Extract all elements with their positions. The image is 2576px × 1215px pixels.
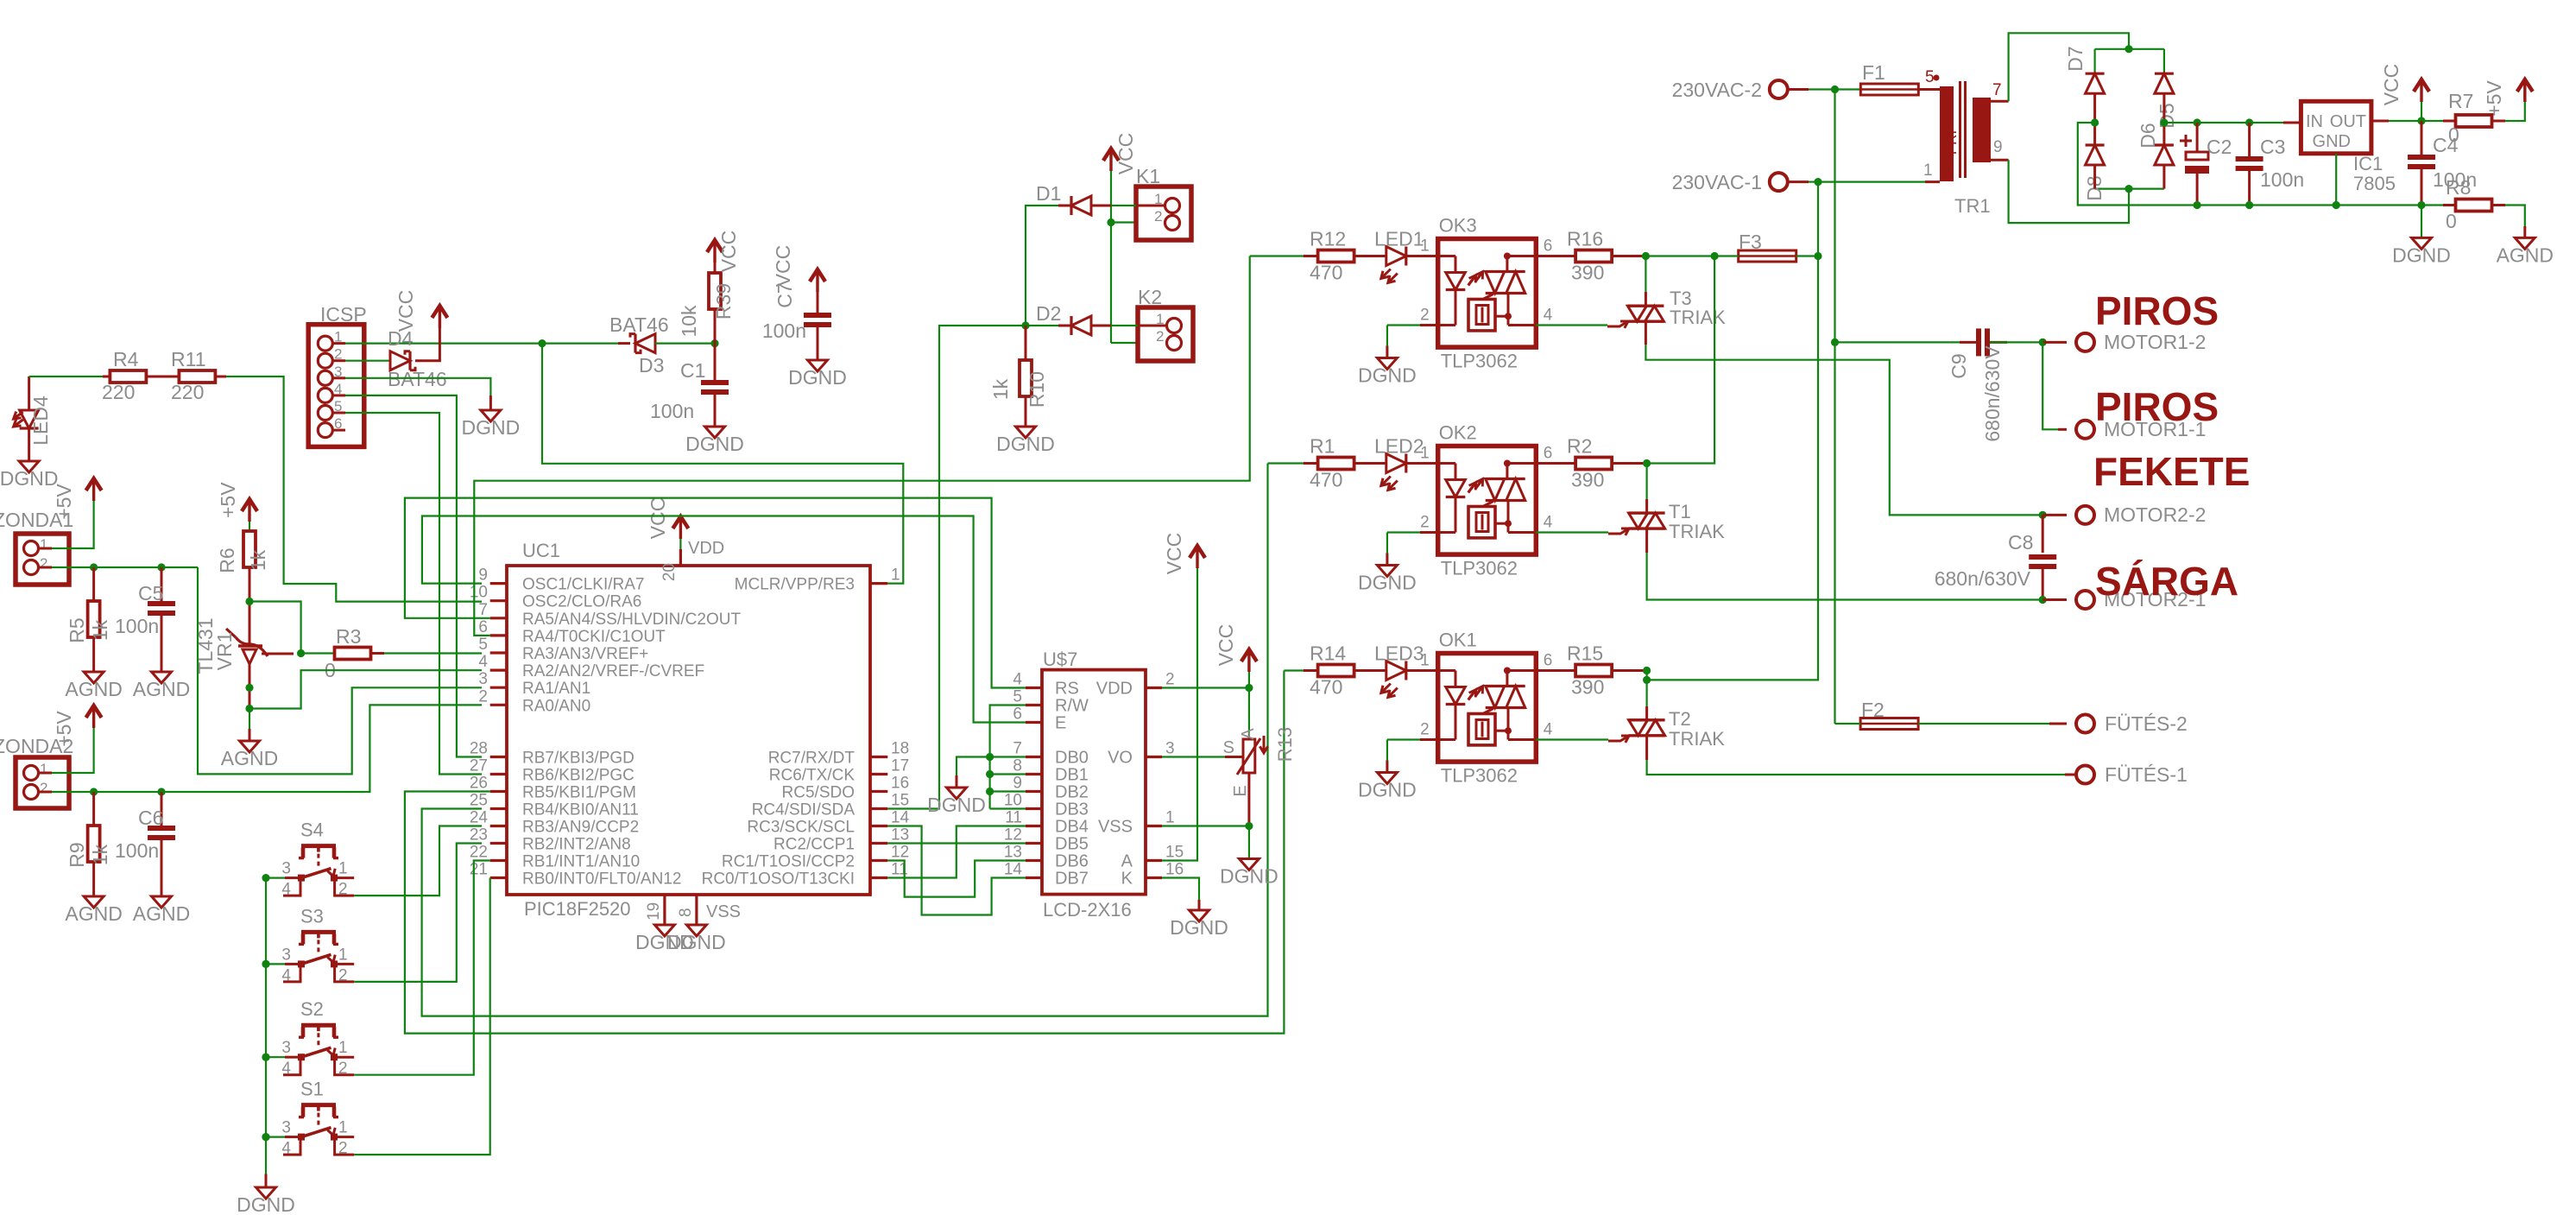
wire R11 to PIC pin10 (OSC2) — [216, 376, 226, 378]
svg-text:DGND: DGND — [0, 467, 58, 490]
junction K1 pin2 — [1107, 218, 1114, 226]
svg-text:OSC2/CLO/RA6: OSC2/CLO/RA6 — [522, 593, 641, 611]
wire ref loop to R3 — [249, 602, 301, 654]
svg-text:IC1: IC1 — [2353, 153, 2383, 174]
wire PIC pin14 (RC3) to LCD DB7 — [887, 826, 1026, 915]
LCD pin 3 VO — [1146, 756, 1162, 758]
svg-text:220: 220 — [171, 381, 204, 403]
svg-text:R14: R14 — [1310, 642, 1346, 665]
svg-text:DGND: DGND — [685, 433, 744, 455]
wire S1 pin2 to PIC pin21 (RB0) — [354, 878, 490, 1155]
LCD pin 1 VSS — [1146, 825, 1162, 827]
svg-text:RC0/T1OSO/T13CKI: RC0/T1OSO/T13CKI — [702, 870, 855, 889]
svg-text:LED4: LED4 — [29, 396, 52, 446]
ground DGND at LCD K — [1190, 910, 1209, 921]
svg-text:C9: C9 — [1948, 353, 1970, 378]
svg-text:4: 4 — [281, 1140, 291, 1158]
svg-text:RA1/AN1: RA1/AN1 — [522, 680, 590, 698]
svg-text:5: 5 — [1925, 68, 1935, 86]
svg-text:DB0: DB0 — [1055, 749, 1089, 768]
junction C4 bottom — [2417, 201, 2425, 209]
svg-text:2: 2 — [338, 881, 348, 899]
svg-text:FÜTÉS-1: FÜTÉS-1 — [2105, 763, 2188, 786]
svg-text:RB0/INT0/FLT0/AN12: RB0/INT0/FLT0/AN12 — [522, 870, 681, 889]
LCD pin 15 A — [1146, 859, 1162, 862]
pin FUTES-1 — [2076, 766, 2094, 784]
wire ZONDA2 pin1 to +5V — [39, 772, 53, 775]
svg-text:R9: R9 — [66, 842, 88, 867]
ground DGND at LCD data bus — [947, 788, 967, 799]
ground DGND at pin19 — [654, 925, 674, 936]
svg-text:R2: R2 — [1567, 435, 1592, 458]
pin 25 RB4/KBI0/AN11 — [490, 807, 507, 810]
wire A (pin15) to VCC — [1162, 568, 1197, 861]
svg-text:F3: F3 — [1739, 231, 1762, 253]
junction bridge top — [2125, 45, 2132, 53]
pin 28 RB7/KBI3/PGD — [490, 756, 507, 758]
svg-text:OK1: OK1 — [1439, 630, 1477, 651]
svg-text:RB4/KBI0/AN11: RB4/KBI0/AN11 — [522, 801, 639, 819]
svg-text:230VAC-2: 230VAC-2 — [1672, 79, 1762, 101]
svg-text:3: 3 — [281, 860, 291, 878]
svg-text:VCC: VCC — [1114, 133, 1137, 175]
svg-text:OK2: OK2 — [1439, 422, 1477, 444]
module U$7 LCD-2X16 — [1042, 670, 1146, 895]
svg-text:DGND: DGND — [2392, 244, 2451, 266]
svg-text:27: 27 — [470, 757, 488, 775]
pin 26 RB5/KBI1/PGM — [490, 790, 507, 793]
supply +5V at ZONDA1 — [92, 482, 95, 501]
svg-text:C5: C5 — [138, 582, 163, 604]
wire OK3 pin2 to DGND — [1420, 324, 1438, 326]
junction C3 top — [2245, 118, 2253, 126]
wire R4-R11 — [147, 376, 180, 378]
optocoupler OK1 TLP3062 — [1438, 654, 1537, 763]
pin 22 RB1/INT1/AN10 — [490, 859, 507, 862]
svg-text:SÁRGA: SÁRGA — [2095, 559, 2238, 604]
wire OK3 pin6 to R16 — [1536, 255, 1575, 257]
svg-text:RA0/AN0: RA0/AN0 — [522, 697, 590, 715]
svg-text:1: 1 — [338, 946, 348, 964]
wire T3 MT1 to MOTOR2-2 node — [1645, 321, 1647, 345]
wire OK1 pin4 to T2 gate — [1536, 738, 1608, 740]
pin 21 RB0/INT0/FLT0/AN12 — [490, 876, 507, 879]
svg-text:DGND: DGND — [1170, 916, 1228, 939]
svg-text:2: 2 — [1420, 307, 1430, 325]
wire IC1 OUT to VCC — [2371, 120, 2389, 123]
wire into R14 — [1284, 669, 1304, 671]
wire LED4 cathode to DGND — [28, 428, 30, 461]
wire R12 to LED1 — [1354, 255, 1386, 257]
svg-text:7: 7 — [478, 601, 488, 619]
svg-text:R13: R13 — [1274, 727, 1296, 762]
wire to MOTOR1-1 — [2042, 342, 2067, 429]
svg-text:1k: 1k — [989, 378, 1012, 400]
connector K2 — [1138, 307, 1193, 361]
wire K1 pin1 to D1 — [1136, 205, 1165, 207]
wire ZONDA1 pin1 to +5V — [39, 547, 53, 550]
svg-text:RC3/SCK/SCL: RC3/SCK/SCL — [747, 819, 855, 837]
svg-text:AGND: AGND — [2497, 244, 2554, 266]
pin 23 RB2/INT2/AN8 — [490, 842, 507, 845]
resistor R14 — [1318, 665, 1354, 677]
diode D1 — [1091, 205, 1111, 207]
svg-text:D3: D3 — [639, 354, 664, 377]
svg-text:390: 390 — [1571, 262, 1604, 284]
supply VCC above K1 — [1109, 152, 1112, 171]
wire R14 to LED3 — [1354, 669, 1386, 672]
LCD pin 10 DB3 — [1026, 807, 1042, 810]
pin MOTOR2-2 FEKETE — [2042, 514, 2067, 516]
svg-text:470: 470 — [1310, 262, 1342, 284]
wire TL431 anode down — [249, 665, 251, 706]
svg-text:T1: T1 — [1669, 501, 1691, 522]
svg-text:VCC: VCC — [1215, 624, 1237, 667]
svg-text:8: 8 — [1013, 757, 1022, 775]
wire T2 MT1 to FUTES-1 — [1645, 736, 1648, 760]
ground DGND under C1 — [705, 427, 725, 438]
wire C5 to AGND — [161, 616, 163, 672]
svg-text:TRIAK: TRIAK — [1669, 728, 1725, 750]
svg-text:RB6/KBI2/PGC: RB6/KBI2/PGC — [522, 767, 635, 785]
junction VDD/pot — [1245, 684, 1253, 692]
wire R1 to LED2 — [1354, 462, 1386, 465]
svg-text:S2: S2 — [300, 998, 324, 1020]
svg-text:470: 470 — [1310, 676, 1342, 699]
svg-text:1: 1 — [1420, 237, 1430, 256]
svg-text:FEKETE: FEKETE — [2093, 449, 2250, 494]
svg-text:R/W: R/W — [1055, 697, 1089, 716]
svg-text:470: 470 — [1310, 469, 1342, 491]
pin 19 VSS — [663, 895, 666, 925]
svg-text:4: 4 — [1544, 307, 1553, 325]
svg-text:4: 4 — [281, 966, 291, 984]
svg-text:7805: 7805 — [2353, 173, 2396, 194]
svg-text:RS: RS — [1055, 680, 1079, 699]
capacitor C4 — [2421, 121, 2423, 155]
junction at C5 — [157, 563, 165, 571]
svg-text:1: 1 — [891, 566, 900, 585]
ground DGND under switches — [256, 1187, 276, 1199]
wire ICSP pin5 to PIC pin27 (RB6) — [332, 412, 345, 414]
svg-text:RB3/AN9/CCP2: RB3/AN9/CCP2 — [522, 819, 639, 837]
svg-text:DB1: DB1 — [1055, 766, 1089, 785]
svg-text:17: 17 — [891, 757, 909, 775]
wire OK1 pin2 to DGND — [1420, 738, 1438, 741]
wire TL431 to AGND — [249, 709, 250, 730]
wire TR1 sec pin9 to bridge bottom — [1991, 159, 2009, 161]
wire PIC pin11 (RC0) to LCD DB4 — [887, 826, 1026, 878]
svg-text:AGND: AGND — [65, 678, 122, 700]
optocoupler OK2 TLP3062 — [1438, 446, 1537, 555]
wire OK1 pin6 to R15 — [1536, 669, 1575, 672]
svg-text:R1: R1 — [1310, 435, 1335, 458]
wire OK2 pin6 to R2 — [1536, 462, 1575, 465]
svg-text:7: 7 — [1992, 81, 2002, 99]
junction C9 on 230VAC-2 — [1831, 339, 1839, 346]
svg-text:DGND: DGND — [927, 794, 986, 816]
LCD pin 16 K — [1146, 876, 1162, 879]
LED LED3 — [1386, 661, 1406, 680]
resistor R3 — [301, 652, 335, 654]
capacitor C9 — [1835, 341, 1977, 343]
LCD pin 2 VDD — [1146, 687, 1162, 689]
svg-text:16: 16 — [1165, 861, 1184, 879]
capacitor C6 — [161, 792, 163, 826]
pin 230VAC-2 — [1770, 80, 1788, 98]
transformer TR1 — [1940, 86, 1954, 181]
svg-text:+5V: +5V — [53, 711, 75, 747]
svg-text:MOTOR2-2: MOTOR2-2 — [2104, 503, 2206, 526]
wire C6 to AGND — [161, 840, 163, 896]
wire DB0-DB3 ground bus — [988, 757, 990, 809]
svg-text:IN: IN — [2306, 112, 2323, 131]
wire LED3 to OK1 pin1 — [1406, 669, 1438, 672]
fuse F1 — [1835, 88, 1861, 90]
fuse F3 — [1739, 250, 1796, 262]
svg-text:OK3: OK3 — [1439, 215, 1477, 237]
pin 27 RB6/KBI2/PGC — [490, 773, 507, 775]
wire ZONDA1 net to PIC pin3 (RA1) — [198, 567, 482, 774]
wire OK3 pin4 to T3 gate — [1536, 324, 1607, 326]
svg-text:16: 16 — [891, 775, 909, 793]
wire R7 to +5V — [2492, 120, 2506, 123]
svg-text:C3: C3 — [2260, 136, 2285, 158]
svg-text:20: 20 — [660, 563, 679, 581]
svg-text:28: 28 — [470, 740, 488, 758]
wire OK2 pin4 to T1 gate — [1536, 531, 1608, 533]
svg-text:390: 390 — [1571, 469, 1604, 491]
supply VCC at D4 — [439, 309, 441, 328]
svg-text:K2: K2 — [1138, 286, 1162, 308]
svg-text:DB2: DB2 — [1055, 783, 1089, 802]
svg-text:OSC1/CLKI/RA7: OSC1/CLKI/RA7 — [522, 576, 645, 594]
junction VSS — [1245, 822, 1253, 830]
supply VCC at VDD — [679, 520, 682, 539]
capacitor C3 — [2248, 123, 2251, 156]
svg-text:DGND: DGND — [667, 931, 726, 953]
LCD pin 13 DB6 — [1026, 859, 1042, 862]
svg-text:R10: R10 — [1026, 371, 1048, 408]
svg-text:19: 19 — [645, 902, 663, 921]
svg-text:6: 6 — [1544, 652, 1553, 670]
ground AGND at power — [2515, 237, 2535, 249]
junction C2 bottom — [2194, 201, 2201, 209]
pin 16 RC5/SDO — [870, 790, 887, 793]
svg-text:2: 2 — [1420, 514, 1430, 532]
svg-text:10: 10 — [1004, 792, 1022, 810]
pin MOTOR1-2 — [2042, 341, 2067, 344]
junction DB2 — [986, 788, 994, 795]
wire OK2 pin2 to DGND — [1420, 531, 1438, 534]
svg-text:TRIAK: TRIAK — [1669, 521, 1725, 542]
svg-text:2: 2 — [1420, 721, 1430, 739]
junction R39/C1 — [710, 339, 718, 347]
pin 9 OSC1/CLKI/RA7 — [490, 582, 507, 585]
pin 13 RC2/CCP1 — [870, 842, 887, 845]
svg-text:23: 23 — [470, 826, 488, 845]
capacitor C8 — [2042, 515, 2044, 553]
svg-text:VSS: VSS — [1098, 818, 1133, 837]
pin 230VAC-1 — [1770, 173, 1788, 191]
svg-text:14: 14 — [1004, 861, 1023, 879]
svg-text:LCD-2X16: LCD-2X16 — [1043, 899, 1132, 921]
svg-text:TR1: TR1 — [1954, 195, 1991, 217]
wire LED1 to OK3 pin1 — [1406, 255, 1438, 257]
wire D4 to VCC — [415, 328, 439, 361]
svg-text:RC4/SDI/SDA: RC4/SDI/SDA — [752, 801, 856, 819]
wire S2 pin2 to PIC pin22 (RB1) — [354, 861, 490, 1075]
svg-text:9: 9 — [1993, 138, 2003, 156]
wire DB0 to DGND — [957, 757, 990, 776]
svg-text:E: E — [1231, 785, 1250, 796]
resistor R12 — [1318, 250, 1354, 263]
shunt reference VR1 TL431 — [238, 644, 262, 648]
svg-text:14: 14 — [891, 809, 910, 827]
junction MOTOR2-1 — [2039, 596, 2047, 604]
svg-text:TLP3062: TLP3062 — [1441, 765, 1518, 787]
svg-text:3: 3 — [281, 1039, 291, 1057]
svg-text:1k: 1k — [89, 619, 111, 641]
wire pot bottom to VSS net — [1247, 773, 1250, 826]
svg-text:S4: S4 — [300, 819, 324, 841]
svg-text:RB2/INT2/AN8: RB2/INT2/AN8 — [522, 836, 631, 854]
ground DGND at ICSP pin3 — [481, 410, 501, 421]
svg-text:6: 6 — [478, 618, 488, 636]
switch S3 — [262, 960, 269, 968]
supply +5V at ZONDA2 — [92, 709, 95, 728]
svg-text:K: K — [1121, 870, 1133, 889]
svg-text:3: 3 — [478, 670, 488, 688]
ground DGND at OK2 — [1377, 566, 1397, 577]
wire ICSP pin1 to D3 net — [332, 342, 345, 345]
svg-text:S1: S1 — [300, 1079, 324, 1100]
svg-text:8: 8 — [677, 908, 695, 917]
svg-text:RA3/AN3/VREF+: RA3/AN3/VREF+ — [522, 645, 648, 663]
pin 10 OSC2/CLO/RA6 — [490, 599, 507, 602]
ground DGND under R10 — [1016, 427, 1036, 438]
ground DGND under LED4 — [19, 461, 39, 472]
wire TR1 sec pin7 to bridge top — [1991, 100, 2009, 103]
switch S4 — [262, 874, 269, 882]
wire K2 pin1 to D2 — [1138, 325, 1167, 327]
LCD pin 4 RS — [1026, 687, 1042, 689]
wire R6 to TL431 — [249, 567, 251, 646]
pin 8 VSS — [695, 895, 698, 925]
svg-text:F1: F1 — [1862, 61, 1885, 84]
svg-text:R6: R6 — [216, 547, 238, 573]
junction D3 left — [538, 339, 546, 347]
svg-text:D1: D1 — [1036, 182, 1061, 205]
svg-text:R16: R16 — [1567, 228, 1603, 250]
wire D1 to D2 node — [1058, 205, 1071, 207]
svg-text:BAT46: BAT46 — [388, 368, 447, 390]
wire R5 to AGND — [92, 637, 95, 672]
LCD pin 9 DB2 — [1026, 790, 1042, 793]
svg-text:TLP3062: TLP3062 — [1441, 351, 1518, 372]
svg-text:UC1: UC1 — [522, 540, 560, 561]
svg-text:6: 6 — [1544, 237, 1553, 256]
junction VCC — [2417, 117, 2425, 124]
junction bridge plus — [2160, 118, 2168, 126]
pin 24 RB3/AN9/CCP2 — [490, 825, 507, 827]
svg-text:12: 12 — [1004, 826, 1022, 845]
wire T1 MT1 to MOTOR2-1 node — [1645, 528, 1648, 553]
svg-text:100n: 100n — [762, 320, 806, 342]
svg-text:680n/630V: 680n/630V — [1935, 567, 2031, 590]
svg-text:1: 1 — [40, 761, 47, 777]
wire D3 to R39/C1 node — [655, 343, 715, 345]
svg-text:RB1/INT1/AN10: RB1/INT1/AN10 — [522, 853, 640, 871]
svg-text:2: 2 — [478, 687, 488, 706]
svg-text:RB5/KBI1/PGM: RB5/KBI1/PGM — [522, 784, 636, 802]
svg-text:DGND: DGND — [1358, 779, 1417, 801]
optocoupler OK3 TLP3062 — [1438, 239, 1537, 348]
svg-text:2: 2 — [40, 555, 47, 572]
wire S4 pin2 to PIC pin24 (RB3) — [354, 826, 482, 896]
svg-text:DGND: DGND — [1358, 364, 1417, 387]
resistor R5 — [92, 567, 95, 601]
pin 12 RC1/T1OSI/CCP2 — [870, 859, 887, 862]
diode D3 BAT46 — [542, 343, 630, 345]
svg-text:7: 7 — [1013, 740, 1022, 758]
svg-text:4: 4 — [478, 653, 488, 671]
IC UC1 PIC18F2520 — [507, 566, 870, 895]
svg-text:+5V: +5V — [2483, 80, 2505, 117]
switch S2 — [262, 1054, 269, 1061]
svg-text:S: S — [1223, 738, 1234, 757]
svg-text:LED1: LED1 — [1374, 228, 1424, 250]
svg-text:D7: D7 — [2064, 46, 2087, 71]
triac T2 — [1645, 671, 1647, 707]
svg-text:MCLR/VPP/RE3: MCLR/VPP/RE3 — [735, 576, 855, 594]
pin MOTOR1-1 — [2076, 421, 2094, 439]
wire R2 to triac node — [1612, 462, 1645, 465]
svg-text:15: 15 — [1165, 844, 1184, 862]
junction bridge minus — [2091, 118, 2099, 126]
svg-text:2: 2 — [1165, 671, 1175, 689]
svg-text:DB4: DB4 — [1055, 818, 1089, 837]
wire ICSP pin3 to DGND — [332, 377, 345, 379]
ground AGND under R5 — [84, 672, 104, 683]
wire F1 to TR1 pin5 — [1918, 88, 1940, 91]
ground DGND at OK1 — [1377, 773, 1397, 784]
svg-text:AGND: AGND — [133, 678, 190, 700]
junction C3 bottom — [2245, 201, 2253, 209]
wire MCLR net — [542, 344, 903, 584]
junction at R5 — [90, 563, 98, 571]
connector ZONDA1 — [16, 534, 69, 585]
svg-text:0: 0 — [2446, 210, 2457, 232]
supply VCC at LCD A — [1196, 549, 1198, 568]
wire ICSP pin2 to D4 — [332, 359, 345, 362]
svg-text:1: 1 — [40, 536, 47, 553]
wire E net from PIC pin9 (OSC1) — [422, 516, 1026, 723]
wire +V rail — [2164, 122, 2301, 123]
ground DGND under pot — [1239, 859, 1259, 870]
svg-text:SEC: SEC — [1970, 129, 1986, 159]
svg-text:DGND: DGND — [237, 1193, 295, 1215]
supply +5V at R6 — [248, 503, 250, 522]
resistor R7 — [2421, 120, 2456, 122]
junction bridge bottom — [2125, 185, 2132, 193]
diode D2 — [1091, 325, 1111, 327]
svg-text:DB5: DB5 — [1055, 835, 1089, 854]
svg-text:RA2/AN2/VREF-/CVREF: RA2/AN2/VREF-/CVREF — [522, 662, 704, 680]
svg-text:22: 22 — [470, 844, 488, 862]
pin 2 RA0/AN0 — [490, 704, 507, 706]
svg-text:DB6: DB6 — [1055, 852, 1089, 871]
